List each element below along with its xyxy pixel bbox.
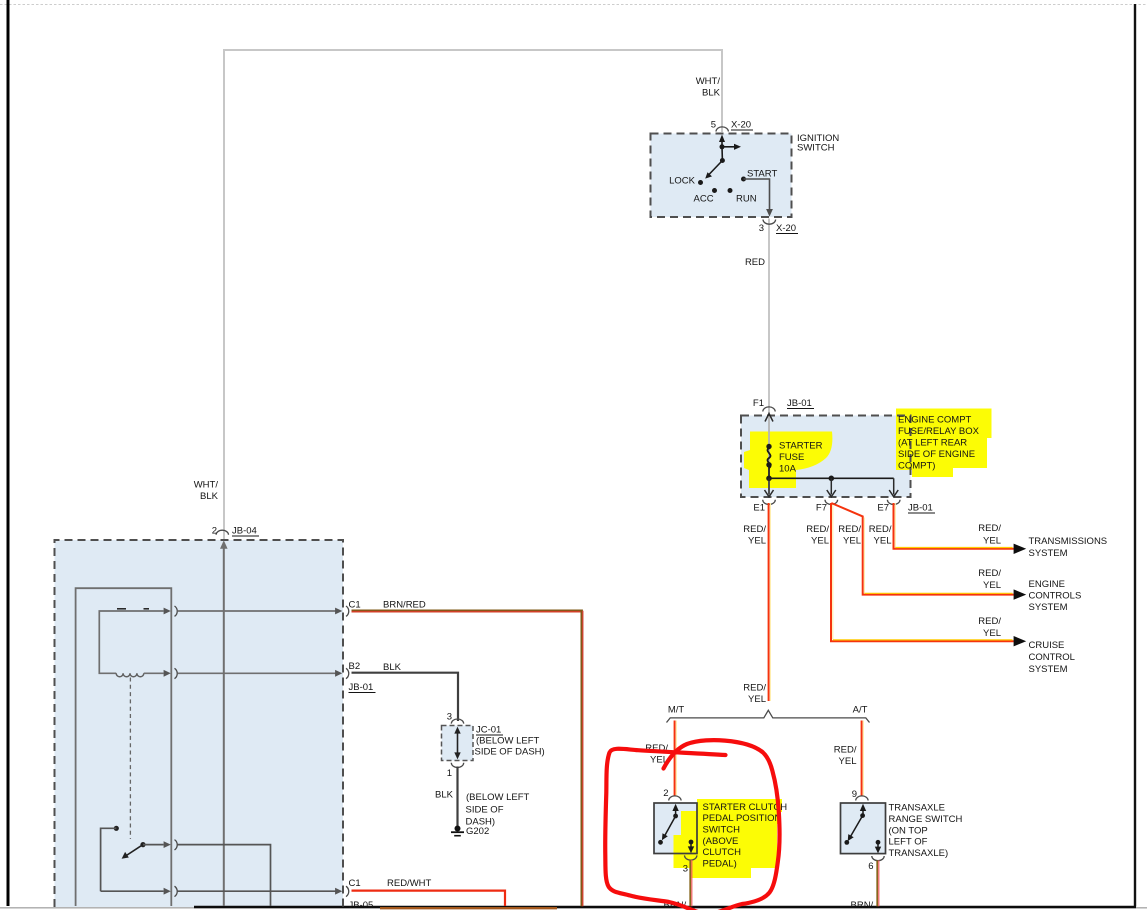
svg-text:C1: C1: [349, 600, 361, 611]
connector pin 9 arc: [856, 796, 868, 801]
svg-text:G202: G202: [466, 826, 489, 837]
wire RED/YEL A/T branch: [861, 721, 863, 796]
svg-text:RUN: RUN: [736, 194, 757, 205]
wire RED ignition switch pin3 to fuse box F1: [768, 219, 770, 414]
svg-text:SIDE OF DASH): SIDE OF DASH): [475, 747, 545, 758]
transaxle switch arrow up: [862, 810, 864, 816]
clutch pedal switch box border: [654, 803, 697, 854]
relay coil box: [99, 611, 163, 673]
svg-text:LEFT OF: LEFT OF: [889, 837, 928, 848]
wire BRN/RED from C1: [352, 609, 583, 611]
svg-text:(BELOW LEFT: (BELOW LEFT: [476, 736, 540, 747]
wire RED/YEL F7 diagonal to engine controls: [831, 503, 1014, 595]
svg-text:STARTER: STARTER: [779, 441, 823, 452]
FILLS: [55, 134, 911, 908]
svg-text:SIDE OF ENGINE: SIDE OF ENGINE: [898, 449, 975, 460]
svg-text:JB-04: JB-04: [232, 526, 257, 537]
wire RED/YEL E1 down to M/T A/T split: [768, 503, 770, 701]
ignition node dot upper: [720, 144, 725, 149]
svg-text:YEL: YEL: [748, 694, 766, 705]
svg-text:JB-01: JB-01: [908, 503, 933, 514]
relay switch common dot: [140, 842, 145, 847]
svg-text:YEL: YEL: [811, 536, 829, 547]
M/T A/T split bracket: [667, 710, 870, 722]
svg-text:RED/: RED/: [834, 745, 857, 756]
svg-text:10A: 10A: [779, 464, 797, 475]
transaxle switch blade: [851, 816, 863, 837]
svg-text:SWITCH: SWITCH: [797, 143, 835, 154]
wire BRN below clutch switch: [689, 860, 691, 907]
svg-text:C1: C1: [349, 878, 361, 889]
connector pin 3 JC-01 arc: [451, 719, 463, 724]
svg-text:RED/: RED/: [978, 616, 1001, 627]
wire RED/WHT from lower C1: [352, 891, 506, 906]
ignition arrow right: [722, 146, 736, 148]
svg-text:RED/: RED/: [806, 524, 829, 535]
highlight starter fuse: [744, 432, 832, 489]
relay outline rectangle: [76, 588, 172, 906]
row C1: connector half-circle: [175, 606, 178, 616]
svg-text:3: 3: [447, 712, 452, 723]
JB-04 relay box fill: [55, 540, 344, 907]
JC-01 joint connector box fill: [442, 726, 474, 761]
highlight engine compt fuse/relay box label: [896, 409, 992, 478]
wire START to pin 3: [744, 179, 770, 210]
svg-text:SYSTEM: SYSTEM: [1029, 602, 1068, 613]
highlight starter clutch pedal position switch label: [674, 799, 783, 878]
svg-text:CLUTCH: CLUTCH: [703, 847, 742, 858]
svg-text:RED/: RED/: [743, 524, 766, 535]
clutch switch arrow down to pin 3: [690, 842, 692, 847]
page right border line: [1134, 4, 1136, 907]
svg-text:2: 2: [663, 788, 668, 799]
svg-text:FUSE/RELAY BOX: FUSE/RELAY BOX: [898, 426, 980, 437]
wire RED/YEL F7 down to cruise control: [831, 503, 1014, 641]
ground G202 symbol: [455, 826, 461, 832]
junction dot E1 bus: [766, 476, 772, 482]
clutch switch blade: [665, 816, 676, 836]
connector arc E1: [763, 500, 776, 505]
connector pin 2 arc: [669, 796, 681, 801]
svg-text:BRN/RED: BRN/RED: [383, 600, 426, 611]
ignition switch box border: [651, 134, 792, 218]
svg-text:X-20: X-20: [731, 120, 751, 131]
svg-text:1: 1: [447, 768, 452, 779]
connector arc F7: [825, 500, 838, 505]
wire BRN below transaxle switch: [876, 860, 878, 906]
transaxle switch pivot dot: [860, 813, 865, 818]
svg-text:(ON TOP: (ON TOP: [889, 825, 928, 836]
svg-text:B2: B2: [349, 661, 361, 672]
svg-text:TRANSAXLE: TRANSAXLE: [889, 803, 946, 814]
clutch switch arrow up: [675, 810, 677, 816]
page bottom gray line: [0, 907, 1147, 909]
svg-text:F1: F1: [753, 398, 764, 409]
svg-text:BLK: BLK: [435, 790, 454, 801]
page top dashed border: [0, 4, 1147, 6]
svg-text:BLK: BLK: [702, 88, 721, 99]
svg-text:X-20: X-20: [776, 223, 796, 234]
ignition rotor dot: [720, 158, 725, 163]
svg-text:(AT LEFT REAR: (AT LEFT REAR: [898, 438, 967, 449]
fuse/relay box fill: [741, 416, 911, 498]
svg-text:START: START: [747, 169, 777, 180]
row B2 wire across JB-04: [178, 672, 336, 674]
bottom cut-off black wire: [194, 906, 1136, 909]
svg-text:PEDAL POSITION: PEDAL POSITION: [703, 813, 782, 824]
ignition switch box fill: [651, 134, 792, 218]
connector pin 2 JB-04 arc: [216, 530, 228, 535]
row C1 lower wire: [101, 890, 164, 892]
arrow out E1 (open chevron): [768, 478, 770, 494]
svg-text:WHT/: WHT/: [696, 76, 721, 87]
ignition link upper to rotor dot: [721, 147, 723, 161]
JB-04 box border: [55, 540, 344, 907]
fuse box internal bus wire: [769, 477, 894, 479]
relay switch blade arrow: [127, 845, 144, 856]
transaxle arrow down to pin 6: [877, 842, 879, 847]
svg-text:RED/: RED/: [978, 568, 1001, 579]
connector pin 3 arc: [685, 855, 697, 860]
clutch pedal switch box fill: [654, 803, 697, 854]
svg-text:YEL: YEL: [983, 628, 1001, 639]
clutch switch contact dot left: [658, 840, 663, 845]
svg-text:JC-01: JC-01: [476, 725, 501, 736]
svg-text:SYSTEM: SYSTEM: [1029, 548, 1068, 559]
bottom cut-off brown wire segment: [380, 907, 557, 909]
svg-text:YEL: YEL: [843, 536, 861, 547]
svg-text:RED/: RED/: [869, 524, 892, 535]
row C1: arrowhead at relay edge: [164, 608, 171, 615]
svg-text:3: 3: [759, 223, 764, 234]
svg-text:JB-01: JB-01: [787, 398, 812, 409]
svg-text:LOCK: LOCK: [669, 176, 696, 187]
ignition RUN contact dot: [728, 188, 733, 193]
svg-text:JB-05: JB-05: [349, 900, 374, 910]
wire BLK from B2 to JC-01: [352, 673, 459, 721]
arrow into fuse box at F1 (open chevron): [765, 414, 773, 422]
svg-text:YEL: YEL: [983, 580, 1001, 591]
svg-text:COMPT): COMPT): [898, 461, 935, 472]
ignition switch internal: arrow up to pin 5: [721, 141, 723, 147]
relay switch L wire: [101, 828, 117, 891]
ignition ACC contact dot: [712, 188, 717, 193]
svg-text:BRN/: BRN/: [851, 900, 874, 910]
row B2: arrowhead at relay edge: [164, 670, 171, 677]
JC-01 box border: [442, 726, 474, 761]
svg-text:RED/: RED/: [838, 524, 861, 535]
svg-text:5: 5: [711, 120, 716, 131]
connector pin 3 X-20 arc: [763, 220, 776, 225]
svg-text:YEL: YEL: [748, 536, 766, 547]
svg-text:RED/: RED/: [743, 683, 766, 694]
svg-text:M/T: M/T: [668, 704, 685, 715]
svg-text:6: 6: [868, 861, 873, 872]
svg-text:CRUISE: CRUISE: [1029, 640, 1065, 651]
svg-text:(ABOVE: (ABOVE: [703, 836, 739, 847]
svg-text:3: 3: [683, 864, 688, 875]
svg-text:(BELOW LEFT: (BELOW LEFT: [466, 792, 530, 803]
svg-text:RANGE SWITCH: RANGE SWITCH: [889, 814, 963, 825]
svg-text:RED/WHT: RED/WHT: [387, 878, 432, 889]
row C1 wire across JB-04: [178, 610, 336, 612]
ignition rotor arm toward LOCK: [709, 161, 722, 175]
clutch switch contact dot right: [689, 840, 694, 845]
svg-text:2: 2: [212, 526, 217, 537]
svg-text:YEL: YEL: [983, 536, 1001, 547]
starter fuse 10A symbol: [766, 444, 771, 449]
svg-text:RED/: RED/: [978, 523, 1001, 534]
hand-drawn red circle around clutch switch: [605, 740, 779, 910]
page left border line: [7, 0, 10, 906]
connector pin 5 X-20 arc: [716, 127, 728, 132]
svg-text:ENGINE COMPT: ENGINE COMPT: [898, 415, 972, 426]
transaxle contact dot left: [844, 840, 849, 845]
arrow out E7 (open chevron): [893, 478, 895, 494]
arrowhead to transmissions system: [1014, 544, 1027, 554]
relay coil winding: [116, 673, 144, 676]
connector pin 6 arc: [872, 856, 884, 861]
svg-text:BLK: BLK: [200, 491, 219, 502]
svg-text:ACC: ACC: [694, 194, 714, 205]
wire RED/YEL M/T branch: [674, 721, 676, 796]
clutch switch pivot dot: [673, 814, 678, 819]
connector pin 1 arc: [451, 763, 463, 768]
svg-text:TRANSMISSIONS: TRANSMISSIONS: [1029, 536, 1108, 547]
svg-text:STARTER CLUTCH: STARTER CLUTCH: [703, 802, 788, 813]
svg-text:FUSE: FUSE: [779, 452, 804, 463]
svg-text:TRANSAXLE): TRANSAXLE): [889, 848, 949, 859]
fuse/relay box border: [741, 416, 911, 498]
ignition LOCK contact dot: [698, 180, 703, 185]
svg-text:SIDE OF: SIDE OF: [466, 804, 504, 815]
relay switch upper contact dot: [114, 826, 119, 831]
HIGHLIGHTS: [674, 409, 992, 879]
svg-text:SWITCH: SWITCH: [703, 825, 741, 836]
transaxle range switch box border: [841, 803, 886, 854]
ANNOTATION: [605, 740, 779, 910]
svg-text:YEL: YEL: [839, 756, 857, 767]
relay linkage dashed line: [129, 678, 131, 840]
JB-04 internal vertical wire with arrow up: [223, 547, 225, 906]
svg-text:YEL: YEL: [874, 536, 892, 547]
transaxle contact dot right: [876, 840, 881, 845]
svg-text:9: 9: [852, 789, 857, 800]
coil top line marks: [117, 608, 126, 610]
svg-text:JB-01: JB-01: [349, 682, 374, 693]
row common: wire from dot through edge, down: [143, 844, 164, 846]
svg-text:SYSTEM: SYSTEM: [1029, 664, 1068, 675]
svg-text:A/T: A/T: [853, 704, 868, 715]
transaxle range switch box fill: [841, 803, 886, 854]
svg-text:F7: F7: [816, 503, 827, 514]
junction dot F7: [829, 476, 835, 482]
wire RED/YEL E7 to transmissions: [894, 503, 1014, 549]
svg-text:ENGINE: ENGINE: [1029, 579, 1065, 590]
svg-text:CONTROLS: CONTROLS: [1029, 591, 1082, 602]
ignition START contact dot: [741, 177, 746, 182]
wire BLK to ground: [456, 767, 458, 827]
connector pin F1 JB-01 arc: [763, 407, 775, 412]
svg-text:WHT/: WHT/: [194, 480, 219, 491]
arrow out F7 (open chevron): [830, 478, 832, 494]
svg-text:BLK: BLK: [383, 662, 402, 673]
connector arc E7: [887, 500, 900, 505]
svg-text:RED: RED: [745, 257, 765, 268]
wire WHT/BLK from top-left corner to ignition switch: [224, 50, 722, 539]
arrowhead to cruise control system: [1014, 636, 1027, 646]
svg-text:PEDAL): PEDAL): [703, 858, 737, 869]
JC-01 internal double arrow: [457, 731, 459, 756]
svg-text:E7: E7: [877, 503, 889, 514]
internal gray wire through fuse box: [768, 416, 770, 494]
svg-text:CONTROL: CONTROL: [1029, 652, 1075, 663]
svg-text:E1: E1: [753, 503, 765, 514]
arrowhead to engine controls system: [1014, 589, 1027, 599]
